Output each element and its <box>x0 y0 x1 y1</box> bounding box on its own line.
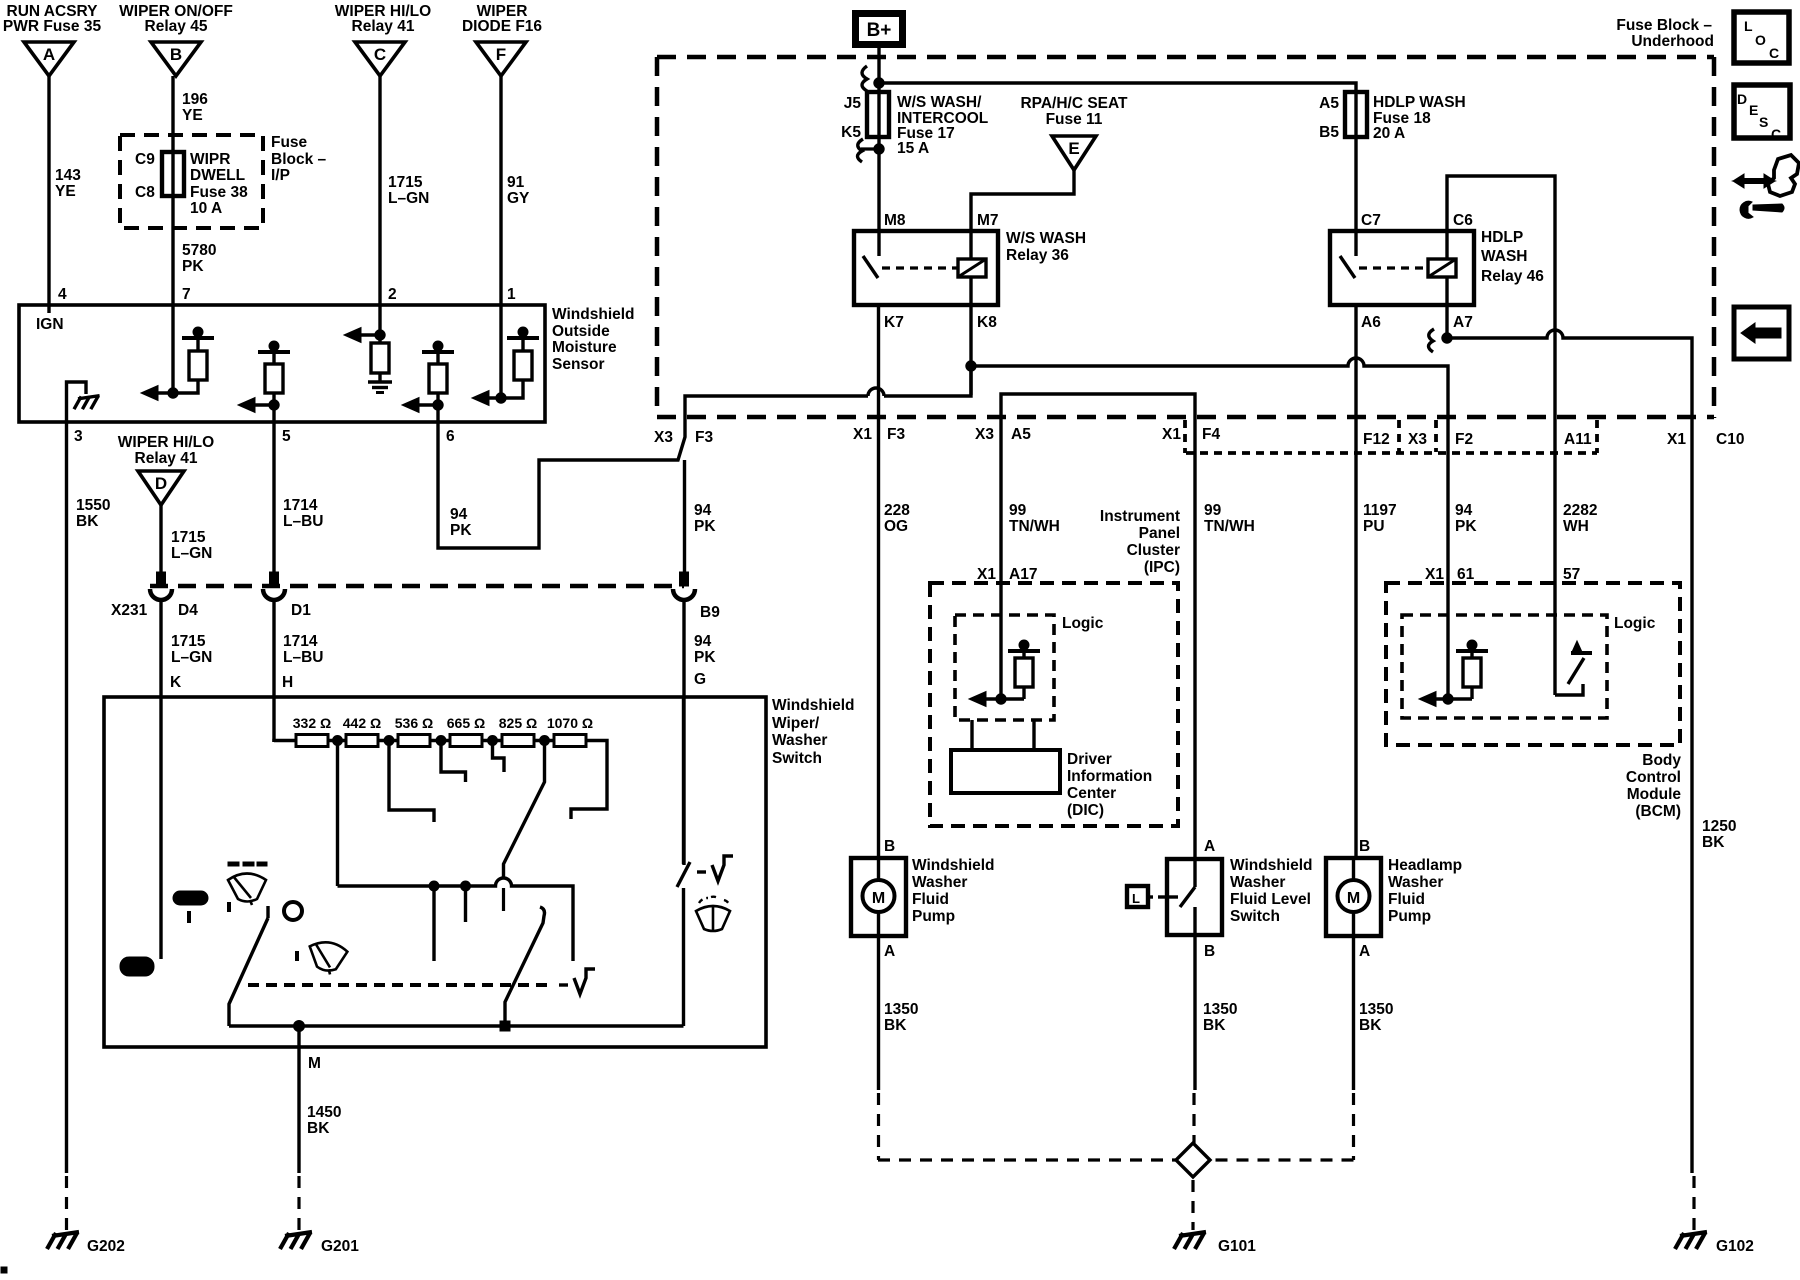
svg-text:M: M <box>872 890 885 907</box>
svg-text:Fluid: Fluid <box>912 891 949 908</box>
windshield wiper/washer switch box <box>104 697 766 1047</box>
svg-text:GY: GY <box>507 190 530 207</box>
svg-text:B: B <box>884 838 895 855</box>
svg-text:M: M <box>308 1055 321 1072</box>
wire fuse17 to relay 36 M8 <box>877 137 880 231</box>
wire label 94 PK at BCM <box>1455 502 1477 535</box>
headlamp washer fluid pump <box>1326 858 1381 936</box>
switch pin M <box>308 1055 321 1072</box>
svg-text:BK: BK <box>1203 1017 1226 1034</box>
LOC info box <box>1734 12 1789 63</box>
BCM driver on 2282 WH <box>1555 583 1592 695</box>
wire label 196 YE <box>182 91 208 124</box>
pin 4 stub <box>47 305 50 313</box>
svg-text:TN/WH: TN/WH <box>1204 518 1255 535</box>
switch pin K internal wire <box>159 740 162 959</box>
crossing X1 F3 <box>853 426 905 443</box>
svg-text:Relay 41: Relay 41 <box>352 18 415 35</box>
switch pin K <box>170 674 182 691</box>
wire 94 PK from fuse block to B9 <box>683 460 686 572</box>
pin 1 <box>507 286 516 303</box>
wire 143 YE from A to sensor pin 4 <box>47 76 50 305</box>
pin C9 <box>135 151 155 168</box>
dashed lead to G202 <box>65 1176 68 1230</box>
wire label 5780 PK <box>182 242 216 275</box>
crossing X3 A5 <box>975 426 1031 443</box>
wire headlamp pump to ground <box>1352 936 1355 1090</box>
wire 5780 PK from fuse 38 to sensor pin 7 <box>171 196 174 305</box>
svg-text:WASH: WASH <box>1481 248 1528 265</box>
svg-text:94: 94 <box>450 506 468 523</box>
wire 94 PK from B9 to switch pin G <box>682 600 685 865</box>
svg-text:DWELL: DWELL <box>190 167 245 184</box>
relay 36 pin M7 label <box>977 212 999 229</box>
washer spray icon <box>696 897 730 931</box>
BCM name <box>1626 752 1681 820</box>
svg-text:Washer: Washer <box>912 874 967 891</box>
headlamp pump name <box>1388 857 1462 925</box>
svg-text:RPA/H/C SEAT: RPA/H/C SEAT <box>1020 95 1128 112</box>
svg-text:W/S WASH: W/S WASH <box>1006 230 1086 247</box>
lo position icon <box>120 957 154 976</box>
crossing X1 F4 <box>1162 426 1220 443</box>
svg-text:K5: K5 <box>841 124 861 141</box>
relay 36 pin M8 label <box>884 212 906 229</box>
wire label 91 GY <box>507 174 530 207</box>
svg-text:A: A <box>43 45 55 64</box>
ground G102 <box>1675 1232 1754 1255</box>
washer pump pin A <box>884 943 895 960</box>
rotary wiper arm from R5/R6 junction <box>504 740 545 911</box>
svg-text:D: D <box>1737 91 1747 107</box>
svg-text:A11: A11 <box>1564 431 1592 448</box>
svg-text:2: 2 <box>388 286 397 303</box>
fluid switch contacts <box>1180 859 1195 935</box>
fluid switch pin B label <box>1204 943 1215 960</box>
svg-text:10 A: 10 A <box>190 200 222 217</box>
bus contact stub 2 <box>464 886 467 922</box>
dashed washer pump ground lead <box>878 1093 1176 1160</box>
svg-text:BK: BK <box>1702 834 1725 851</box>
fluid switch pin A label <box>1204 838 1215 855</box>
wire 1715 L-GN from C to sensor pin 2 <box>378 76 381 305</box>
svg-text:X1: X1 <box>1425 566 1444 583</box>
fuse block underhood label <box>1616 17 1714 50</box>
svg-text:J5: J5 <box>844 95 862 112</box>
svg-text:L: L <box>1132 891 1140 906</box>
relay 36 coil link dashed <box>882 266 958 269</box>
svg-text:A17: A17 <box>1009 566 1037 583</box>
pin 7 <box>182 286 191 303</box>
wire fuse18 to relay 46 C7 <box>1354 137 1357 231</box>
svg-text:1714: 1714 <box>283 633 318 650</box>
svg-text:Outside: Outside <box>552 323 610 340</box>
back arrow box <box>1734 307 1789 359</box>
svg-text:PU: PU <box>1363 518 1385 535</box>
svg-text:94: 94 <box>1455 502 1473 519</box>
wire label 1715 L-GN upper <box>171 529 212 562</box>
svg-text:196: 196 <box>182 91 208 108</box>
svg-text:57: 57 <box>1563 566 1580 583</box>
wire label 228 OG <box>884 502 910 535</box>
svg-text:99: 99 <box>1204 502 1222 519</box>
svg-text:A: A <box>1204 838 1215 855</box>
svg-text:C10: C10 <box>1716 431 1744 448</box>
tap contact after R6 <box>571 741 607 820</box>
wire label 143 YE <box>55 167 81 200</box>
svg-text:TN/WH: TN/WH <box>1009 518 1060 535</box>
svg-text:(DIC): (DIC) <box>1067 802 1104 819</box>
svg-text:B5: B5 <box>1319 124 1339 141</box>
wire washer pump to ground <box>877 936 880 1090</box>
connector cavity B9 <box>673 572 695 600</box>
svg-text:1197: 1197 <box>1363 502 1397 519</box>
mist dashed line <box>248 983 554 987</box>
svg-text:99: 99 <box>1009 502 1027 519</box>
svg-text:B: B <box>1204 943 1215 960</box>
svg-text:2282: 2282 <box>1563 502 1597 519</box>
svg-text:C6: C6 <box>1453 212 1473 229</box>
pin 4 <box>58 286 67 303</box>
svg-text:A: A <box>884 943 895 960</box>
svg-text:PK: PK <box>182 258 204 275</box>
svg-text:I/P: I/P <box>271 167 290 184</box>
svg-text:Instrument: Instrument <box>1100 508 1180 525</box>
pin B5 <box>1319 124 1339 141</box>
resistor chain 332-1070 ohm <box>296 735 586 747</box>
relay 36 name <box>1006 230 1086 264</box>
crossing F12 X3 F2 <box>1363 431 1473 448</box>
svg-text:1715: 1715 <box>171 633 206 650</box>
svg-text:B+: B+ <box>867 20 892 41</box>
relay 36 switch <box>863 231 879 278</box>
relay 36 coil <box>958 231 986 305</box>
svg-text:D1: D1 <box>291 602 311 619</box>
svg-text:PK: PK <box>1455 518 1477 535</box>
svg-text:1350: 1350 <box>884 1001 918 1018</box>
wire label 1350 BK left <box>884 1001 918 1034</box>
relay 46 box <box>1330 231 1474 305</box>
connector A label RUN ACSRY PWR Fuse 35 <box>3 3 102 35</box>
pin J5 <box>844 95 862 112</box>
svg-text:Fluid: Fluid <box>1388 891 1425 908</box>
svg-text:PK: PK <box>694 518 716 535</box>
svg-text:A: A <box>1359 943 1370 960</box>
pin 5 internal wire <box>272 393 275 422</box>
svg-text:Headlamp: Headlamp <box>1388 857 1462 874</box>
svg-text:Module: Module <box>1627 786 1682 803</box>
wire relay46 C6 to BCM 57 <box>1447 176 1555 583</box>
sensor divider R on pin 7 with supply and signal arrow <box>141 327 214 401</box>
switch pin H <box>282 674 293 691</box>
dashed lead diamond to G101 <box>1191 1180 1194 1230</box>
DIC box <box>951 720 1060 793</box>
IPC name <box>1100 508 1180 576</box>
washer switch arm <box>677 862 690 1026</box>
svg-text:E: E <box>1749 102 1758 118</box>
svg-text:F3: F3 <box>695 429 713 446</box>
svg-text:1450: 1450 <box>307 1104 341 1121</box>
svg-text:PK: PK <box>450 522 472 539</box>
delay wipe icon <box>228 862 267 912</box>
svg-text:F: F <box>496 45 506 64</box>
crossing X1 C10 <box>1667 431 1744 448</box>
svg-text:L–BU: L–BU <box>283 513 323 530</box>
svg-text:332 Ω: 332 Ω <box>293 715 331 731</box>
switch pin G <box>694 671 706 688</box>
svg-text:C: C <box>1771 126 1781 142</box>
svg-text:Fuse 11: Fuse 11 <box>1046 111 1103 128</box>
svg-text:Washer: Washer <box>1388 874 1443 891</box>
sensor divider R on pin 6 with supply and signal arrow <box>402 341 454 413</box>
wire label 1350 BK middle <box>1203 1001 1237 1034</box>
svg-text:5: 5 <box>282 428 291 445</box>
dashed lead to G102 <box>1692 1176 1695 1230</box>
svg-text:665 Ω: 665 Ω <box>447 715 485 731</box>
int wipe icon <box>297 940 348 976</box>
clip hook below fuse 17 <box>858 139 885 162</box>
wire 94 PK from pin 6 routed to fuse block <box>438 366 971 548</box>
svg-text:M8: M8 <box>884 212 906 229</box>
svg-text:825 Ω: 825 Ω <box>499 715 537 731</box>
BCM logic label <box>1614 615 1656 632</box>
svg-text:15 A: 15 A <box>897 140 929 157</box>
IPC logic dashed box <box>955 615 1054 720</box>
dashed fluid switch ground lead <box>1192 1093 1195 1143</box>
svg-text:D: D <box>155 474 167 493</box>
wire 1714 L-BU from D1 to switch pin H <box>272 600 275 742</box>
svg-text:C9: C9 <box>135 151 155 168</box>
svg-text:143: 143 <box>55 167 81 184</box>
svg-text:Pump: Pump <box>912 908 955 925</box>
headlamp pump pin B <box>1359 838 1370 855</box>
wire 1714 L-BU from pin 5 to X231 D1 <box>272 422 275 572</box>
wire label 1250 BK <box>1702 818 1736 851</box>
svg-text:WH: WH <box>1563 518 1589 535</box>
svg-text:A7: A7 <box>1453 314 1473 331</box>
svg-text:Washer: Washer <box>772 732 827 749</box>
sensor internal ground wire <box>67 382 87 422</box>
pin 6 label <box>446 428 455 445</box>
pin A5 <box>1319 95 1339 112</box>
svg-text:Relay 46: Relay 46 <box>1481 268 1544 285</box>
relay 46 pin C6 label <box>1453 212 1473 229</box>
svg-text:3: 3 <box>74 428 83 445</box>
svg-text:Cluster: Cluster <box>1127 542 1180 559</box>
svg-text:D4: D4 <box>178 602 198 619</box>
svg-text:94: 94 <box>694 502 712 519</box>
washer pump pin B <box>884 838 895 855</box>
washer pump name <box>912 857 995 925</box>
wire relay46 A6 to headlamp pump <box>1354 305 1357 858</box>
fuse 18 label <box>1373 94 1466 142</box>
svg-text:OG: OG <box>884 518 908 535</box>
svg-text:L–GN: L–GN <box>171 649 212 666</box>
wire from E to relay 36 M7 <box>971 170 1074 231</box>
wiper common bus <box>338 878 574 961</box>
svg-text:L–BU: L–BU <box>283 649 323 666</box>
resistor value labels <box>293 715 593 731</box>
wire label 1714 L-BU lower <box>283 633 323 666</box>
relay 36 pin K8 label <box>977 314 997 331</box>
svg-text:1550: 1550 <box>76 497 110 514</box>
windshield outside moisture sensor box <box>19 305 545 422</box>
svg-text:1714: 1714 <box>283 497 318 514</box>
svg-text:Panel: Panel <box>1139 525 1180 542</box>
svg-text:94: 94 <box>694 633 712 650</box>
svg-text:F2: F2 <box>1455 431 1473 448</box>
ground G101 <box>1174 1232 1256 1255</box>
IGN label <box>36 316 64 333</box>
svg-text:C8: C8 <box>135 184 155 201</box>
ground G202 <box>47 1232 125 1255</box>
svg-text:PWR Fuse 35: PWR Fuse 35 <box>3 18 102 35</box>
svg-text:L–GN: L–GN <box>171 545 212 562</box>
off position ring <box>284 902 302 920</box>
svg-text:Body: Body <box>1642 752 1681 769</box>
pin K5 <box>841 124 861 141</box>
connector A triangle <box>24 42 74 76</box>
relay 46 coil <box>1428 231 1456 305</box>
connector B label WIPER ON/OFF Relay 45 <box>119 3 233 35</box>
svg-text:1070 Ω: 1070 Ω <box>547 715 593 731</box>
svg-text:Relay 45: Relay 45 <box>145 18 208 35</box>
pin 1 internal wire <box>499 305 502 398</box>
dashed headlamp pump ground lead <box>1210 1093 1354 1160</box>
svg-text:Driver: Driver <box>1067 751 1112 768</box>
svg-text:YE: YE <box>182 107 203 124</box>
tap after R1 down to wiper bus <box>336 740 339 886</box>
hi position icon <box>173 891 208 923</box>
svg-text:Windshield: Windshield <box>912 857 995 874</box>
relay 36 box <box>854 231 998 305</box>
svg-text:Sensor: Sensor <box>552 356 605 373</box>
svg-text:A5: A5 <box>1011 426 1031 443</box>
tap contact after R4 <box>493 740 505 772</box>
svg-text:L: L <box>1744 18 1753 34</box>
svg-text:WIPER HI/LO: WIPER HI/LO <box>118 434 214 451</box>
wire 196 YE from B to fuse 38 <box>171 76 174 152</box>
BCM logic dashed box <box>1402 615 1607 718</box>
svg-text:F4: F4 <box>1202 426 1220 443</box>
svg-text:Fuse Block –: Fuse Block – <box>1616 17 1712 34</box>
IPC logic label <box>1062 615 1104 632</box>
connector F triangle <box>476 42 526 76</box>
fuse F17 W/S WASH INTERCOOL <box>867 92 889 137</box>
pin 7 internal wire <box>171 305 174 393</box>
svg-text:1250: 1250 <box>1702 818 1736 835</box>
BCM dashed box <box>1386 583 1680 745</box>
dashed lead to G201 <box>297 1176 300 1230</box>
wire fluid switch B to ground <box>1193 935 1196 1090</box>
sensor R to ground on pin 2 with signal arrow <box>344 328 392 393</box>
relay 36 pin K7 label <box>884 314 904 331</box>
svg-text:G202: G202 <box>87 1238 125 1255</box>
svg-text:HDLP: HDLP <box>1481 229 1523 246</box>
relay 46 pin A6 label <box>1361 314 1381 331</box>
svg-text:HDLP WASH: HDLP WASH <box>1373 94 1466 111</box>
wire relay36 K7 to washer pump <box>877 305 880 858</box>
svg-text:X3: X3 <box>654 429 673 446</box>
svg-text:Fuse 38: Fuse 38 <box>190 184 248 201</box>
svg-text:X1: X1 <box>1162 426 1181 443</box>
svg-text:228: 228 <box>884 502 910 519</box>
svg-text:A5: A5 <box>1319 95 1339 112</box>
battery feed B+ box <box>856 14 903 45</box>
svg-text:61: 61 <box>1457 566 1475 583</box>
fluid level switch name <box>1230 857 1313 925</box>
wire label 1350 BK right <box>1359 1001 1393 1034</box>
washer momentary symbol <box>697 856 733 881</box>
IPC input divider <box>969 583 1040 707</box>
svg-text:(BCM): (BCM) <box>1635 803 1681 820</box>
relay 46 pin A7 label <box>1453 314 1473 331</box>
headlamp pump pin A <box>1359 943 1370 960</box>
relay 46 name <box>1481 229 1544 285</box>
svg-text:G101: G101 <box>1218 1238 1256 1255</box>
wire label 1715 L-GN lower <box>171 633 212 666</box>
svg-text:Fuse: Fuse <box>271 134 308 151</box>
svg-text:X231: X231 <box>111 602 148 619</box>
inline connector X231 dashed row <box>150 584 684 589</box>
connector cavity D4 <box>150 572 172 600</box>
svg-text:M7: M7 <box>977 212 999 229</box>
svg-text:PK: PK <box>694 649 716 666</box>
mist momentary symbol <box>559 969 595 994</box>
wire 1715 L-GN from D to X231 D4 <box>159 505 162 572</box>
ground splice diamond <box>1176 1143 1210 1177</box>
connector cavity D1 <box>263 572 285 600</box>
connector D triangle <box>138 471 184 505</box>
wire 1715 L-GN from D4 to switch pin K <box>159 600 162 740</box>
svg-text:A6: A6 <box>1361 314 1381 331</box>
svg-text:Fluid Level: Fluid Level <box>1230 891 1311 908</box>
svg-text:Wiper/: Wiper/ <box>772 715 820 732</box>
svg-text:B9: B9 <box>700 604 720 621</box>
wire label 1714 L-BU upper <box>283 497 323 530</box>
pin 3 <box>74 428 83 445</box>
switch bottom bus <box>229 1021 684 1032</box>
svg-text:Logic: Logic <box>1062 615 1104 632</box>
svg-text:1: 1 <box>507 286 516 303</box>
svg-text:F12: F12 <box>1363 431 1390 448</box>
svg-text:Relay 36: Relay 36 <box>1006 247 1069 264</box>
wire label 94 PK above B9 <box>694 502 716 535</box>
main switch arm <box>229 906 268 1026</box>
svg-text:M: M <box>1347 890 1360 907</box>
clip hook at A7 <box>1429 329 1435 352</box>
cavity D4 label <box>178 602 198 619</box>
fuse F18 HDLP WASH <box>1345 92 1367 137</box>
svg-text:4: 4 <box>58 286 67 303</box>
fuse block I/P label <box>271 134 327 184</box>
wire label 1450 BK <box>307 1104 341 1137</box>
washer switch wire G <box>682 697 685 864</box>
fuse block underhood dashed outline <box>657 57 1714 418</box>
svg-text:7: 7 <box>182 286 191 303</box>
wire label 1550 BK <box>76 497 110 530</box>
wire label 94 PK pin6 <box>450 506 472 539</box>
pin X1 A17 <box>977 566 1037 583</box>
svg-text:Switch: Switch <box>772 750 822 767</box>
fuse 17 label <box>897 94 988 157</box>
svg-text:DIODE F16: DIODE F16 <box>462 18 542 35</box>
sensor divider R on pin 5 with supply and signal arrow <box>238 341 290 413</box>
connector D label WIPER HI/LO Relay 41 <box>118 434 214 467</box>
BCM input divider on 94 PK <box>1419 583 1488 707</box>
pin 6 internal wire <box>436 393 439 422</box>
svg-text:536 Ω: 536 Ω <box>395 715 433 731</box>
